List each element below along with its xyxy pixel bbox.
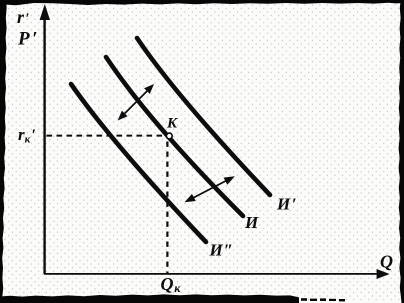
svg-text:K: K	[166, 116, 178, 132]
svg-text:P′: P′	[17, 29, 37, 50]
svg-text:И: И	[244, 213, 259, 232]
svg-text:Q: Q	[380, 252, 393, 272]
svg-text:И″: И″	[209, 241, 234, 260]
svg-text:И′: И′	[276, 195, 297, 214]
